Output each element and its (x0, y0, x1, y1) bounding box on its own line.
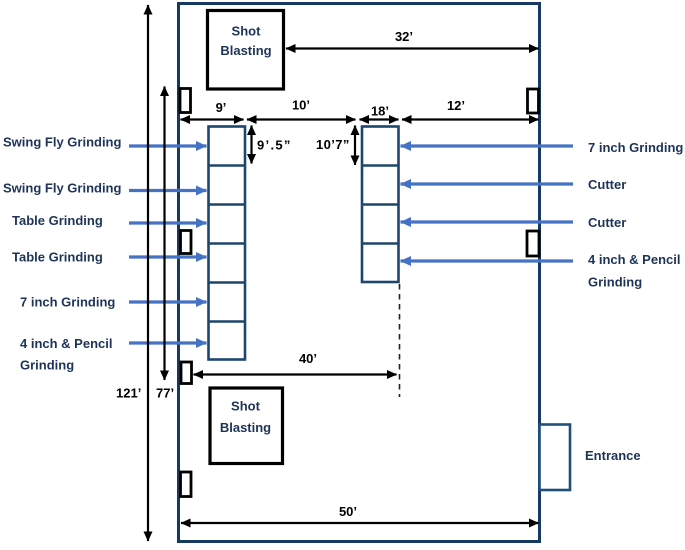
svg-text:Entrance: Entrance (585, 448, 641, 463)
dimension 77 feet arrow (163, 87, 165, 381)
arrow cutter 1 (401, 182, 574, 185)
svg-text:9’: 9’ (216, 100, 227, 115)
svg-text:18’: 18’ (371, 104, 389, 119)
svg-text:4 inch & Pencil: 4 inch & Pencil (20, 336, 112, 351)
svg-text:12’: 12’ (447, 98, 465, 113)
svg-text:7 inch Grinding: 7 inch Grinding (588, 140, 683, 155)
dimension 121 feet arrow (147, 5, 149, 541)
door left 4 (181, 472, 192, 497)
svg-text:Table Grinding: Table Grinding (12, 213, 103, 228)
arrow swing fly grinding 2 (129, 189, 207, 192)
svg-text:40’: 40’ (299, 351, 317, 366)
shot blasting room (top) (208, 11, 284, 90)
arrow swing fly grinding 1 (129, 144, 207, 147)
arrow cutter 2 (401, 220, 574, 223)
arrow 4 inch and pencil grinding left (129, 341, 207, 344)
svg-text:Swing Fly Grinding: Swing Fly Grinding (3, 181, 122, 196)
dimension 10 feet arrow (247, 118, 356, 120)
dimension 12 feet arrow (402, 118, 539, 120)
arrow table grinding 1 (129, 221, 207, 224)
door right 1 (528, 89, 539, 113)
arrow table grinding 2 (129, 255, 207, 258)
svg-text:Blasting: Blasting (220, 420, 271, 435)
dimension 9 feet arrow (181, 118, 244, 120)
svg-text:Grinding: Grinding (588, 275, 642, 290)
svg-text:121’: 121’ (116, 386, 141, 401)
svg-text:50’: 50’ (339, 504, 357, 519)
dimension 18 feet arrow (360, 118, 399, 120)
svg-text:Shot: Shot (232, 24, 262, 39)
door left 1 (180, 89, 191, 113)
svg-text:Table Grinding: Table Grinding (12, 250, 103, 265)
svg-text:10’: 10’ (292, 98, 310, 113)
svg-text:77’: 77’ (156, 386, 174, 401)
svg-text:10’7”: 10’7” (316, 137, 350, 152)
door left 3 (181, 362, 192, 384)
svg-text:9’.5”: 9’.5” (257, 138, 292, 153)
dimension 50 feet arrow (181, 522, 539, 524)
svg-text:Swing Fly Grinding: Swing Fly Grinding (3, 135, 122, 150)
right machine column (362, 127, 399, 283)
svg-text:Grinding: Grinding (20, 358, 74, 373)
svg-text:4 inch & Pencil: 4 inch & Pencil (588, 252, 680, 267)
svg-text:Cutter: Cutter (588, 177, 626, 192)
dimension 9.5 arrow (250, 126, 252, 164)
door right 2 (527, 231, 539, 256)
svg-text:Cutter: Cutter (588, 215, 626, 230)
arrow 7 inch grinding left (129, 300, 207, 303)
dimension 10ft7 arrow (354, 126, 356, 166)
svg-text:32’: 32’ (395, 29, 413, 44)
entrance bay (540, 425, 571, 491)
door left 2 (181, 231, 192, 254)
dimension 32 feet arrow (286, 47, 539, 49)
left machine column (209, 127, 246, 360)
arrow 4 inch and pencil grinding right (401, 259, 574, 262)
svg-text:Shot: Shot (231, 399, 261, 414)
dimension 40 feet arrow (194, 373, 397, 375)
svg-text:7 inch Grinding: 7 inch Grinding (20, 295, 115, 310)
shot blasting room (bottom) (210, 388, 283, 464)
building outer wall (179, 4, 540, 542)
arrow 7 inch grinding right (401, 144, 574, 147)
dashed projection line (399, 284, 401, 397)
svg-text:Blasting: Blasting (220, 43, 271, 58)
